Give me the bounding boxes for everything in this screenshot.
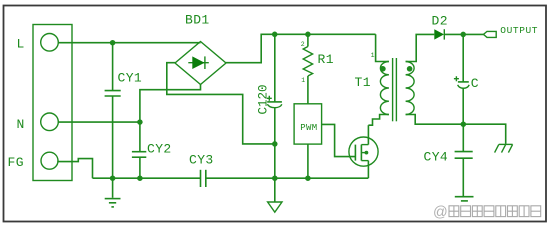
svg-text:N: N bbox=[17, 117, 25, 132]
wire T1 secondary top to D2 bbox=[406, 34, 435, 61]
svg-text:CY4: CY4 bbox=[424, 149, 449, 164]
svg-text:L: L bbox=[17, 37, 25, 52]
wire output node down to C bbox=[462, 34, 464, 81]
svg-text:OUTPUT: OUTPUT bbox=[500, 25, 538, 36]
wire CY1 vertical lower to ground bus bbox=[112, 96, 114, 178]
ground power symbol (open triangle) bbox=[268, 202, 282, 212]
watermark bbox=[433, 205, 541, 221]
wire CY2 bottom to ground bus bbox=[139, 157, 141, 178]
svg-text:C: C bbox=[471, 76, 479, 91]
svg-text:CY3: CY3 bbox=[189, 153, 214, 168]
svg-text:D2: D2 bbox=[432, 14, 448, 29]
transformer T1 secondary winding bbox=[406, 62, 415, 115]
diode D2 bbox=[434, 29, 483, 39]
node junction rail / C120 bbox=[272, 32, 278, 38]
T1 primary polarity dot bbox=[380, 66, 386, 72]
wire CY4 top bbox=[462, 124, 464, 151]
svg-text:1: 1 bbox=[371, 52, 375, 59]
wire N junction down to CY2 bbox=[139, 122, 141, 151]
terminal N circle bbox=[41, 113, 59, 131]
terminal L circle bbox=[41, 34, 59, 52]
node junction N / bridge bottom bbox=[137, 119, 143, 125]
svg-text:@: @ bbox=[433, 205, 448, 221]
wire MOSFET source down to ground bus bbox=[367, 161, 369, 179]
svg-text:C120: C120 bbox=[256, 84, 270, 114]
svg-text:CY2: CY2 bbox=[147, 142, 172, 157]
wire top bus L to bridge bbox=[58, 42, 201, 44]
node junction rail / R1 bbox=[305, 32, 311, 38]
resistor R1 bbox=[303, 34, 312, 104]
capacitor C electrolytic bbox=[454, 76, 469, 88]
node junction top bus / CY1 bbox=[110, 40, 116, 46]
svg-text:BD1: BD1 bbox=[185, 12, 210, 27]
transformer T1 core bbox=[393, 58, 397, 121]
ground earth symbol left bbox=[105, 178, 121, 207]
svg-text:PWM: PWM bbox=[300, 123, 317, 133]
svg-text:2: 2 bbox=[301, 41, 305, 48]
wire positive rail down to T1 primary bbox=[376, 34, 389, 61]
bridge BD1 diode symbol bbox=[188, 56, 209, 69]
wire N bus bbox=[58, 121, 140, 123]
wire C bottom to secondary bottom net bbox=[462, 88, 464, 124]
wire PWM output to gate bbox=[322, 124, 356, 156]
svg-text:R1: R1 bbox=[318, 52, 334, 67]
terminal FG circle bbox=[41, 152, 58, 169]
transformer T1 primary winding bbox=[380, 62, 389, 115]
wire FG jog to ground bus bbox=[57, 159, 92, 179]
T1 secondary polarity dot bbox=[407, 66, 413, 72]
wire bridge right vertex to positive rail bbox=[226, 34, 376, 62]
node junction bus / CY2 bbox=[137, 175, 143, 181]
node junction C120 line / left vertex path bbox=[272, 141, 278, 147]
ground earth symbol under CY4 bbox=[455, 197, 474, 201]
wire PWM bottom to ground bus bbox=[307, 144, 309, 178]
node junction bus / CY1 bbox=[110, 175, 116, 181]
node junction output bbox=[460, 32, 466, 38]
node junction bus / C120 line bbox=[272, 175, 278, 181]
chassis ground symbol right bbox=[495, 144, 513, 152]
capacitor C120 bbox=[267, 34, 282, 202]
wire CY4 bottom bbox=[462, 158, 464, 196]
svg-text:CY1: CY1 bbox=[118, 71, 143, 86]
node junction secondary net bbox=[461, 121, 467, 127]
wire ground bus right segment bbox=[206, 177, 368, 179]
connector J1 body bbox=[33, 25, 72, 181]
capacitor CY4 bbox=[455, 152, 473, 159]
capacitor CY1 bbox=[105, 91, 121, 96]
node junction bus / PWM bottom bbox=[305, 175, 311, 181]
transistor Q1 MOSFET bbox=[349, 137, 378, 166]
svg-text:FG: FG bbox=[8, 155, 24, 170]
svg-text:T1: T1 bbox=[355, 75, 371, 90]
capacitor CY2 bbox=[132, 152, 146, 158]
bridge BD1 diamond bbox=[175, 42, 226, 85]
wire bridge left vertex to C120 bottom node bbox=[167, 63, 275, 144]
PWM controller block U1 bbox=[294, 104, 322, 144]
wire MOSFET drain up to transformer bbox=[367, 125, 369, 144]
wire bridge bottom vertex to N line bbox=[140, 85, 201, 123]
wire T1 primary bottom staircase to drain bbox=[368, 115, 389, 126]
svg-text:1: 1 bbox=[301, 77, 305, 84]
wire CY1 vertical upper bbox=[112, 43, 114, 91]
capacitor CY3 bbox=[201, 170, 206, 187]
wire ground bus left segment bbox=[93, 177, 201, 179]
output port symbol bbox=[484, 31, 497, 37]
wire T1 secondary bottom to output ground net bbox=[406, 115, 506, 144]
